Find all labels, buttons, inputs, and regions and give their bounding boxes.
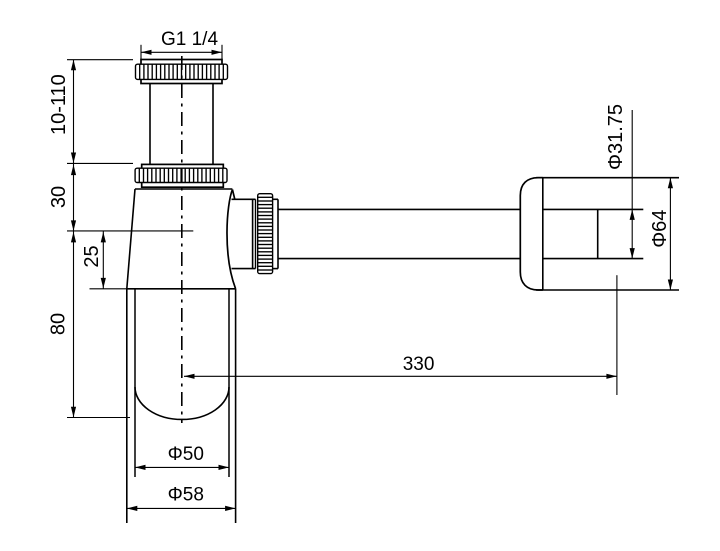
svg-text:Φ58: Φ58 [168, 485, 204, 506]
G1 1/4 dimension [141, 45, 222, 63]
svg-text:80: 80 [47, 313, 69, 335]
wall flange [520, 178, 679, 290]
lower knurled nut [135, 164, 227, 187]
svg-text:330: 330 [403, 354, 435, 375]
svg-text:Φ64: Φ64 [649, 210, 671, 248]
trap body cone [127, 189, 236, 289]
80 dimension lines [67, 231, 130, 417]
phi58 dimension line [127, 507, 236, 509]
svg-text:30: 30 [48, 186, 70, 208]
svg-text:G1 1/4: G1 1/4 [161, 29, 218, 50]
phi31.75 dimension line [631, 110, 633, 259]
outlet pipe [278, 209, 520, 258]
vertical centerline (dashed) [181, 56, 183, 423]
arrowheads [71, 50, 673, 511]
10-110 dimension lines [67, 60, 133, 164]
side outlet knurled nut [258, 194, 278, 274]
phi50 dimension line [135, 466, 229, 468]
inlet tube [150, 84, 213, 165]
top inlet knurled nut [136, 60, 228, 84]
svg-text:10-110: 10-110 [48, 74, 70, 135]
side outlet collar [232, 199, 256, 268]
phi64 dimension line [669, 178, 671, 290]
25 dimension lines [102, 231, 104, 288]
bottle cup walls [127, 289, 236, 523]
svg-text:25: 25 [81, 245, 103, 267]
svg-text:Φ31.75: Φ31.75 [605, 104, 627, 170]
30 dimension lines [67, 163, 193, 231]
330 dimension lines [184, 275, 617, 395]
svg-text:Φ50: Φ50 [168, 444, 204, 465]
